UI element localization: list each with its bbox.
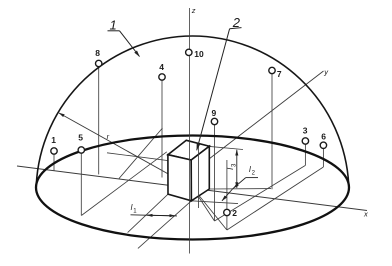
svg-text:1: 1 xyxy=(133,209,137,215)
cube top face xyxy=(168,140,209,160)
point 6 xyxy=(320,142,326,148)
dome arc xyxy=(36,36,348,185)
dimension l1 extension from C' xyxy=(138,201,192,249)
svg-text:3: 3 xyxy=(303,126,308,136)
svg-text:z: z xyxy=(191,6,196,15)
dimension l3 top extension xyxy=(209,146,243,149)
pin point 9 xyxy=(214,125,216,221)
callout 2 leader xyxy=(197,29,230,151)
base ellipse xyxy=(36,136,349,240)
svg-text:10: 10 xyxy=(194,49,204,59)
radius r arrow xyxy=(59,113,193,188)
z axis xyxy=(189,8,191,254)
svg-text:4: 4 xyxy=(159,62,164,72)
cube right face xyxy=(191,146,209,201)
label l3 (rotated) xyxy=(226,163,237,170)
point 10 xyxy=(186,49,192,55)
callout 1 underline xyxy=(108,30,120,32)
wire center to foot2 xyxy=(193,188,227,231)
node line a xyxy=(119,128,163,179)
callout 2 underline xyxy=(230,28,242,29)
dimension l2 extension from C' xyxy=(191,201,238,204)
svg-text:9: 9 xyxy=(212,108,217,118)
dimension l1 right arrow xyxy=(160,215,175,217)
wire foot9 to foot3 xyxy=(215,165,306,221)
point 4 xyxy=(159,74,165,80)
callout 1 leader xyxy=(120,31,140,57)
point 9 xyxy=(211,118,217,124)
pin point 6 xyxy=(322,149,324,168)
dimension l2 line xyxy=(246,177,258,179)
pin point 3 xyxy=(304,145,306,166)
svg-text:2: 2 xyxy=(252,171,256,177)
pin point 4 xyxy=(161,81,163,178)
point 7 xyxy=(269,67,275,73)
point 2 xyxy=(224,209,230,215)
y axis xyxy=(194,71,324,171)
pin vertical through cube xyxy=(198,144,200,209)
dimension l1 extension from B' xyxy=(128,194,168,232)
point 8 xyxy=(96,60,102,66)
pin point 5 xyxy=(80,153,82,216)
dimension l1 left arrow xyxy=(147,214,160,216)
wire foot2 to foot6 xyxy=(227,167,324,230)
pin point 7 xyxy=(271,74,273,189)
cube front face xyxy=(168,155,192,201)
dimension l1 line xyxy=(131,215,178,216)
pin point 2 xyxy=(226,160,228,230)
svg-text:1: 1 xyxy=(51,135,56,145)
pin point 1 xyxy=(53,154,55,171)
wire foot5 to cube corner B xyxy=(81,152,166,216)
svg-text:x: x xyxy=(363,210,368,219)
svg-text:5: 5 xyxy=(78,132,83,142)
svg-text:8: 8 xyxy=(95,48,100,58)
x axis xyxy=(17,166,367,211)
wire center to foot9 xyxy=(193,188,215,222)
svg-text:6: 6 xyxy=(321,132,326,142)
svg-text:l: l xyxy=(131,203,133,212)
svg-text:2: 2 xyxy=(232,208,237,218)
svg-text:l: l xyxy=(226,168,235,170)
svg-text:1: 1 xyxy=(110,17,117,32)
svg-text:7: 7 xyxy=(277,69,282,79)
svg-text:r: r xyxy=(107,132,110,141)
point 3 xyxy=(302,138,308,144)
svg-text:y: y xyxy=(323,67,329,76)
dimension l3 line xyxy=(236,150,238,168)
node line c xyxy=(107,153,206,166)
wire D' to foot7 (l3 bottom / l2 extension) xyxy=(209,188,271,190)
point 5 xyxy=(78,147,84,153)
point 1 xyxy=(51,148,57,154)
pin point 8 xyxy=(98,67,100,174)
